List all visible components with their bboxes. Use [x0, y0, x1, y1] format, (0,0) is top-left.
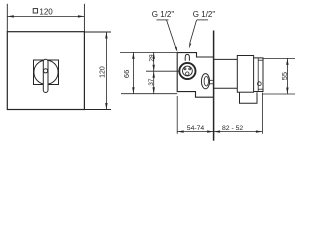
- dim 120 vertical: top extension line: [84, 31, 111, 33]
- side port top line to wall: [210, 79, 214, 81]
- dim sq120: right arrow: [78, 15, 85, 17]
- dim 66: line: [132, 52, 134, 93]
- dim sq120: right extension line: [83, 4, 85, 32]
- handle base square: [34, 60, 59, 85]
- dim 55: line: [286, 58, 288, 94]
- dim 66: top arrow: [132, 52, 134, 59]
- cartridge tick left: [184, 68, 186, 70]
- end piece bottom bevel: [258, 88, 263, 90]
- dim sq120: dimension line: [7, 15, 84, 17]
- dim 55: top extension line: [263, 57, 295, 59]
- svg-text:55: 55: [280, 72, 289, 80]
- end piece screw circle: [257, 82, 261, 86]
- svg-text:G 1/2": G 1/2": [152, 10, 175, 19]
- dim 29-37: line: [153, 52, 155, 93]
- dim 54-74: left arrow: [177, 130, 184, 132]
- svg-text:54-74: 54-74: [187, 125, 205, 132]
- end piece inner vertical: [257, 58, 259, 92]
- dim 82-52: line: [214, 131, 263, 133]
- dim 29: middle arrow down: [153, 65, 155, 72]
- svg-text:120: 120: [100, 66, 107, 78]
- left dims: top extension line: [120, 51, 177, 53]
- dim 29: top arrow: [153, 52, 155, 59]
- cap rectangle: [237, 56, 253, 93]
- dim sq120: left extension line: [6, 4, 8, 32]
- bottom dims: front face extension line: [176, 96, 178, 134]
- dim 55: top arrow: [286, 58, 288, 65]
- side port bottom line to wall: [210, 83, 214, 85]
- svg-text:82 - 52: 82 - 52: [222, 125, 243, 132]
- leader arrow left: [175, 47, 178, 53]
- leader line right: [190, 20, 197, 44]
- leader arrow right: [189, 43, 191, 48]
- bottom dims: right end extension line: [261, 93, 263, 134]
- svg-text:66: 66: [122, 70, 131, 78]
- side port inner ellipse: [204, 76, 208, 86]
- handle rosette circle: [34, 60, 58, 84]
- dim 37: bottom arrow: [153, 87, 155, 94]
- svg-text:29: 29: [148, 54, 155, 62]
- dim 54-74: line: [177, 131, 213, 133]
- end piece top bevel: [258, 59, 263, 61]
- left dims: bottom extension line: [121, 93, 177, 95]
- cartridge inner circle: [183, 66, 193, 76]
- dim 54-74: right arrow: [207, 130, 214, 132]
- label G 1/2 left underline: [157, 19, 169, 21]
- dim 120 vertical: bottom extension line: [84, 109, 111, 111]
- svg-text:G 1/2": G 1/2": [193, 10, 216, 19]
- front view: escutcheon plate outline: [7, 32, 84, 110]
- dim 82-52: right arrow: [256, 130, 263, 132]
- lever handle capsule: [43, 59, 48, 92]
- side view: body outline: [177, 53, 213, 98]
- cartridge nut on body: [185, 54, 189, 60]
- cartridge outer circle: [179, 63, 195, 79]
- cartridge tick right: [189, 68, 191, 70]
- label G 1/2 right underline: [197, 19, 208, 21]
- dim 55: bottom extension line: [262, 93, 295, 95]
- dim 120 vertical: bottom arrow: [105, 103, 107, 110]
- dim 82-52: left arrow: [214, 130, 221, 132]
- dim 66: bottom arrow: [132, 87, 134, 94]
- dim 120 vertical: top arrow: [105, 32, 107, 39]
- dim sq120: left arrow: [7, 15, 14, 17]
- lower stub rectangle: [240, 92, 258, 103]
- end piece rectangle: [254, 58, 263, 92]
- dim 120 vertical: dimension line: [105, 32, 107, 110]
- svg-text:120: 120: [39, 7, 53, 16]
- dim sq120: square symbol: [33, 9, 37, 13]
- side view: wall line: [213, 31, 215, 141]
- svg-text:37: 37: [148, 78, 155, 86]
- leader line left: [167, 20, 177, 49]
- dim 55: bottom arrow: [286, 88, 288, 95]
- lever knob small circle: [44, 69, 48, 73]
- side port outer ellipse: [201, 74, 209, 89]
- cartridge center detail circle: [186, 72, 189, 75]
- rear sleeve rectangle: [214, 59, 238, 88]
- dim 37: middle arrow up: [153, 71, 155, 78]
- left dims: middle extension line: [146, 70, 179, 72]
